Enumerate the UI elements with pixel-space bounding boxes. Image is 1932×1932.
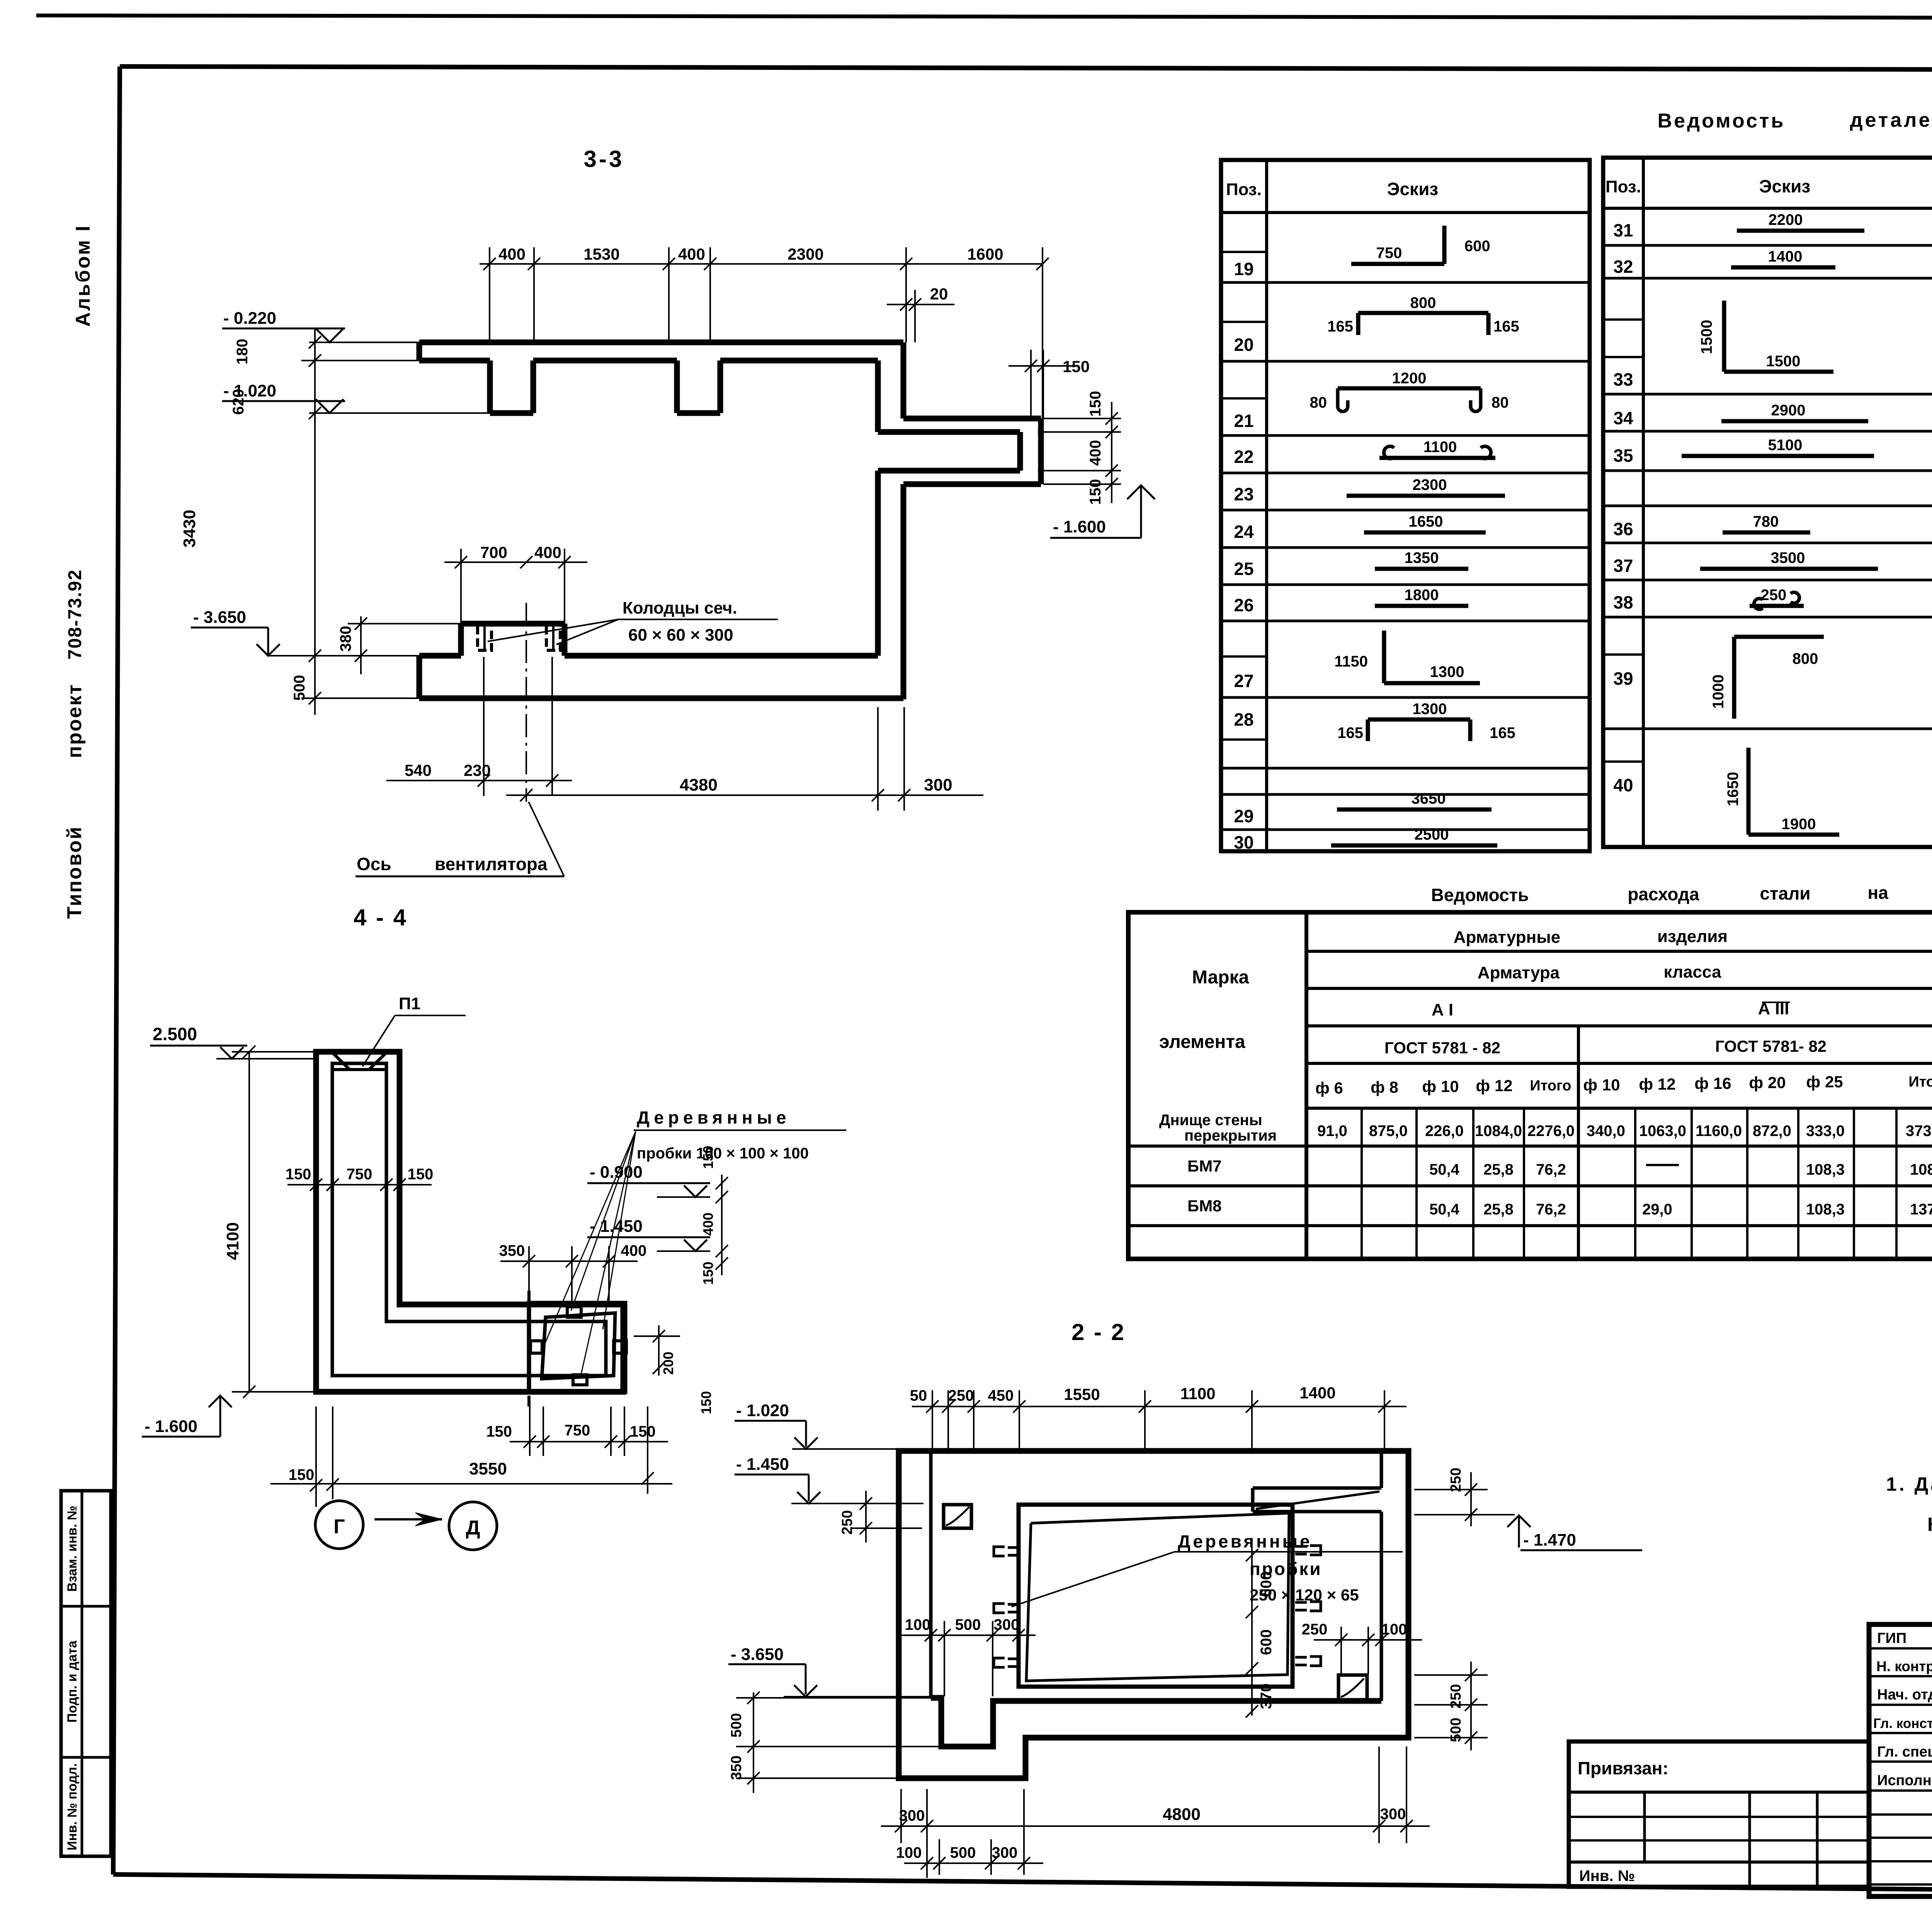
- svg-text:ф 12: ф 12: [1639, 1075, 1675, 1093]
- svg-text:100: 100: [905, 1616, 931, 1633]
- svg-text:300: 300: [899, 1807, 925, 1824]
- table2 item 39 sketch corner 800/1000: [1734, 635, 1824, 639]
- svg-text:- 1.020: - 1.020: [736, 1401, 789, 1420]
- svg-text:Эскиз: Эскиз: [1387, 179, 1438, 199]
- table2 item 36 sketch bar 780: [1723, 531, 1810, 535]
- svg-text:250: 250: [1448, 1468, 1464, 1492]
- svg-text:333,0: 333,0: [1806, 1122, 1845, 1139]
- section 3-3 beam notch 1: [487, 361, 493, 413]
- svg-text:БМ8: БМ8: [1187, 1197, 1222, 1215]
- svg-text:400: 400: [700, 1213, 716, 1236]
- svg-text:элемента: элемента: [1159, 1032, 1245, 1052]
- svg-text:150: 150: [630, 1423, 656, 1440]
- svg-text:3430: 3430: [180, 510, 199, 548]
- svg-text:- 1.450: - 1.450: [736, 1455, 789, 1474]
- svg-text:1200: 1200: [1392, 370, 1427, 387]
- svg-text:750: 750: [347, 1166, 372, 1183]
- svg-text:150: 150: [698, 1391, 714, 1414]
- section 4-4 plug leader lines: [544, 1131, 636, 1345]
- svg-text:- 1.450: - 1.450: [590, 1217, 643, 1236]
- svg-text:Поз.: Поз.: [1605, 177, 1641, 196]
- section 2-2 shaft inner quad: [1026, 1513, 1289, 1681]
- table1 item 30 sketch bar 2500: [1331, 844, 1497, 848]
- privyazan table rows: [1569, 1791, 1869, 1794]
- section 2-2 right dim 250 top: [1414, 1489, 1488, 1490]
- svg-text:Арматурные: Арматурные: [1454, 928, 1561, 947]
- table2 item 35 sketch bar 5100: [1682, 454, 1874, 458]
- svg-text:расхода: расхода: [1628, 884, 1699, 904]
- svg-text:4100: 4100: [223, 1222, 242, 1260]
- svg-text:1400: 1400: [1299, 1384, 1335, 1402]
- svg-text:38: 38: [1613, 592, 1633, 612]
- svg-text:1550: 1550: [1064, 1385, 1100, 1403]
- svg-text:пробки 100 × 100 × 100: пробки 100 × 100 × 100: [637, 1145, 809, 1162]
- svg-text:Арматура: Арматура: [1478, 963, 1560, 982]
- section 4-4 inner contour: [332, 1063, 606, 1376]
- section 3-3 dim 4380 300: [506, 794, 983, 796]
- svg-text:2300: 2300: [1413, 476, 1447, 493]
- section 4-4 insert box outer: [529, 1303, 625, 1392]
- svg-text:108,3: 108,3: [1806, 1201, 1845, 1218]
- svg-text:ГИП: ГИП: [1877, 1630, 1906, 1646]
- svg-text:108,3: 108,3: [1910, 1161, 1932, 1178]
- section 2-2 inner right wall line: [1380, 1451, 1383, 1488]
- svg-text:100: 100: [1381, 1621, 1407, 1638]
- svg-text:620: 620: [230, 389, 247, 415]
- section 4-4 bottom dims 150 3550: [270, 1483, 672, 1485]
- steel table header horizontal lines: [1306, 950, 1932, 953]
- svg-text:872,0: 872,0: [1753, 1122, 1791, 1139]
- svg-text:перекрытия: перекрытия: [1184, 1127, 1277, 1144]
- section 2-2 right bottom dims 250 500: [1414, 1674, 1488, 1676]
- table1 item 20 sketch staple 800/165: [1358, 311, 1488, 315]
- svg-text:1063,0: 1063,0: [1639, 1122, 1686, 1139]
- svg-text:250: 250: [1302, 1621, 1328, 1638]
- title block outer frame: [1869, 1624, 1932, 1896]
- svg-text:- 0.900: - 0.900: [590, 1163, 643, 1182]
- svg-text:800: 800: [1410, 294, 1436, 311]
- svg-text:1650: 1650: [1409, 513, 1443, 530]
- svg-text:- 3.650: - 3.650: [731, 1645, 784, 1664]
- svg-text:Марка: Марка: [1192, 967, 1249, 988]
- svg-text:19: 19: [1234, 259, 1253, 279]
- svg-text:40: 40: [1613, 775, 1633, 795]
- svg-text:230: 230: [464, 761, 491, 779]
- svg-text:400: 400: [498, 245, 526, 263]
- section 4-4 dim 4100 left: [248, 1052, 250, 1392]
- svg-text:91,0: 91,0: [1317, 1122, 1347, 1139]
- svg-text:875,0: 875,0: [1369, 1122, 1408, 1139]
- section 4-4 top plate P1: [333, 1068, 386, 1071]
- svg-text:780: 780: [1753, 513, 1779, 530]
- svg-text:3-3: 3-3: [584, 146, 624, 172]
- title block signature row lines: [1869, 1647, 1932, 1650]
- svg-text:ф 8: ф 8: [1371, 1078, 1398, 1096]
- section 3-3 right vertical dims 150 400 150: [1111, 402, 1112, 503]
- svg-text:- 0.220: - 0.220: [223, 309, 276, 328]
- svg-text:150: 150: [1063, 357, 1090, 376]
- svg-text:Н. контр.: Н. контр.: [1876, 1658, 1932, 1674]
- section 3-3 fan axis line: [526, 603, 527, 802]
- section 3-3 slab left end edge: [417, 342, 422, 361]
- svg-text:600: 600: [1464, 238, 1490, 255]
- svg-text:БМ7: БМ7: [1187, 1157, 1222, 1175]
- svg-text:50: 50: [910, 1387, 927, 1404]
- svg-text:1150: 1150: [1334, 653, 1368, 670]
- section 4-4 dashed section axis: [527, 1291, 531, 1406]
- svg-text:29,0: 29,0: [1642, 1201, 1672, 1218]
- svg-text:400: 400: [1087, 440, 1104, 466]
- svg-text:Итого: Итого: [1530, 1078, 1571, 1094]
- section 3-3 well 1: [478, 626, 492, 650]
- detail table 1 frame: [1221, 160, 1590, 851]
- svg-text:27: 27: [1234, 671, 1253, 691]
- svg-text:5100: 5100: [1768, 437, 1803, 454]
- section 4-4 insert tab bottom: [573, 1375, 587, 1385]
- svg-text:22: 22: [1234, 447, 1253, 467]
- table1 item 23 sketch bar 2300: [1347, 494, 1505, 498]
- svg-text:340,0: 340,0: [1587, 1122, 1625, 1139]
- main frame bottom edge: [113, 1874, 1932, 1896]
- svg-text:165: 165: [1327, 318, 1353, 335]
- detail table 1 header row: [1221, 211, 1590, 214]
- section 4-4 bottom dims 150 750 150: [510, 1441, 668, 1442]
- section 4-4 axis bubble D: [449, 1502, 497, 1550]
- section 4-4 insert tab left: [531, 1341, 542, 1353]
- svg-text:4380: 4380: [680, 776, 718, 794]
- svg-text:26: 26: [1234, 595, 1253, 615]
- svg-text:Гл. спец .: Гл. спец .: [1877, 1744, 1932, 1760]
- svg-text:Итого: Итого: [1908, 1074, 1932, 1090]
- svg-text:21: 21: [1234, 411, 1253, 431]
- svg-text:3650: 3650: [1412, 790, 1446, 807]
- svg-text:ГОСТ 5781 - 82: ГОСТ 5781 - 82: [1384, 1039, 1500, 1057]
- section 2-2 lower right opening square: [1338, 1675, 1367, 1700]
- section 2-2 floor and sump: [931, 1698, 1381, 1747]
- svg-text:300: 300: [1380, 1806, 1406, 1823]
- svg-text:76,2: 76,2: [1536, 1161, 1566, 1178]
- table2 item 37 sketch bar 3500: [1700, 567, 1878, 571]
- svg-text:Подп. и дата: Подп. и дата: [65, 1640, 80, 1723]
- svg-text:1600: 1600: [967, 245, 1003, 263]
- section 2-2 dims 100 500 300 inside: [896, 1634, 1036, 1636]
- section 2-2 upper left opening square: [944, 1505, 971, 1528]
- svg-text:проект: проект: [63, 684, 86, 758]
- svg-text:Эскиз: Эскиз: [1759, 176, 1810, 196]
- section 3-3 dim 150 top right: [1009, 365, 1078, 367]
- svg-text:1. Данный лист смотреть со: 1. Данный лист смотреть совместно с лист…: [1886, 1473, 1932, 1495]
- section 3-3 dim 20: [887, 304, 954, 305]
- table2 item 34 sketch bar 2900: [1721, 419, 1868, 423]
- svg-text:3500: 3500: [1771, 549, 1805, 566]
- svg-text:25,8: 25,8: [1483, 1161, 1514, 1178]
- svg-text:80: 80: [1310, 394, 1327, 411]
- svg-text:3550: 3550: [469, 1459, 507, 1478]
- table1 item 25 sketch bar 1350: [1375, 567, 1468, 571]
- section 3-3 floor and bottom slab: [419, 653, 461, 659]
- svg-text:370: 370: [1258, 1684, 1275, 1709]
- svg-text:Днище стены: Днище стены: [1159, 1112, 1262, 1129]
- svg-text:2276,0: 2276,0: [1527, 1122, 1575, 1139]
- svg-text:2200: 2200: [1769, 211, 1803, 228]
- svg-text:450: 450: [988, 1387, 1014, 1404]
- svg-text:- 1.600: - 1.600: [1053, 517, 1106, 536]
- svg-text:ф 10: ф 10: [1422, 1077, 1459, 1095]
- section 3-3 well 2: [546, 626, 560, 650]
- svg-text:800: 800: [1793, 650, 1818, 667]
- svg-text:500: 500: [728, 1713, 745, 1737]
- svg-text:250: 250: [948, 1387, 974, 1404]
- svg-text:1000: 1000: [1710, 675, 1727, 709]
- svg-text:540: 540: [405, 761, 432, 779]
- svg-text:350: 350: [728, 1755, 745, 1780]
- svg-text:600: 600: [1258, 1629, 1275, 1655]
- table1 item 29 sketch bar 3650: [1337, 808, 1492, 812]
- section 4-4 insert tab top: [567, 1307, 581, 1317]
- svg-text:34: 34: [1613, 408, 1633, 428]
- section 4-4 insert tab right: [614, 1341, 626, 1353]
- svg-text:165: 165: [1490, 724, 1515, 742]
- svg-text:А I: А I: [1432, 1000, 1453, 1019]
- svg-text:1500: 1500: [1766, 353, 1801, 370]
- section 4-4 dims 150 750 150 top: [287, 1184, 432, 1185]
- svg-text:23: 23: [1234, 484, 1253, 504]
- svg-text:36: 36: [1613, 519, 1633, 539]
- svg-text:ГОСТ 5781- 82: ГОСТ 5781- 82: [1715, 1037, 1827, 1055]
- svg-text:150: 150: [286, 1166, 311, 1183]
- section 3-3 dim 540 230: [386, 780, 572, 781]
- section 2-2 plug leader line: [1012, 1552, 1175, 1607]
- svg-text:1650: 1650: [1725, 772, 1742, 806]
- svg-text:на: на: [1867, 883, 1888, 903]
- svg-text:2 - 2: 2 - 2: [1071, 1319, 1126, 1345]
- table1 item 27 sketch L-bar 1150x1300: [1382, 631, 1386, 683]
- svg-text:30: 30: [1234, 832, 1253, 852]
- table1 item 24 sketch bar 1650: [1364, 531, 1486, 535]
- svg-text:1530: 1530: [583, 245, 619, 263]
- svg-text:50,4: 50,4: [1429, 1161, 1460, 1178]
- svg-text:300: 300: [992, 1844, 1018, 1861]
- svg-text:39: 39: [1613, 668, 1633, 689]
- svg-text:400: 400: [621, 1242, 647, 1259]
- svg-text:Г: Г: [333, 1515, 345, 1538]
- svg-text:250: 250: [839, 1510, 855, 1534]
- svg-text:2500: 2500: [1415, 826, 1449, 843]
- svg-text:226,0: 226,0: [1425, 1122, 1464, 1139]
- svg-text:1800: 1800: [1405, 587, 1439, 604]
- svg-text:Взам. инв. №: Взам. инв. №: [65, 1505, 80, 1592]
- section 3-3 top slab outline: [419, 340, 903, 345]
- section 2-2 dims 250 100 lower right: [1314, 1639, 1422, 1641]
- svg-text:2.500: 2.500: [153, 1024, 197, 1044]
- svg-text:250: 250: [1448, 1684, 1464, 1708]
- svg-text:- 1.600: - 1.600: [145, 1417, 197, 1436]
- section 2-2 inner left wall line: [929, 1451, 933, 1698]
- svg-text:- 1.470: - 1.470: [1523, 1531, 1576, 1549]
- svg-text:1100: 1100: [1423, 439, 1457, 456]
- section 2-2 left bottom dims 500 350: [753, 1692, 754, 1793]
- table2 item 38 sketch z-hook 250: [1750, 604, 1804, 608]
- svg-text:600: 600: [1258, 1571, 1275, 1597]
- svg-text:150: 150: [1087, 391, 1104, 417]
- main frame top edge: [120, 66, 1932, 71]
- svg-text:400: 400: [678, 245, 705, 263]
- svg-text:350: 350: [499, 1242, 525, 1259]
- svg-text:Привязан:: Привязан:: [1578, 1758, 1668, 1778]
- svg-text:20: 20: [1234, 335, 1253, 355]
- table2 item 31 sketch bar 2200: [1737, 229, 1864, 233]
- table2 item 33 sketch L-bar 1500x1500: [1722, 301, 1726, 372]
- section 2-2 bottom dims 100 500 300: [904, 1862, 1043, 1864]
- section 4-4 insert inner quad: [542, 1313, 615, 1379]
- svg-text:150: 150: [408, 1166, 434, 1183]
- outer top band line: [36, 15, 1932, 19]
- svg-text:37: 37: [1613, 556, 1633, 576]
- svg-text:35: 35: [1613, 446, 1633, 466]
- svg-text:750: 750: [565, 1422, 590, 1439]
- svg-text:ф 20: ф 20: [1749, 1073, 1786, 1092]
- svg-text:Гл. констр.: Гл. констр.: [1873, 1716, 1932, 1731]
- svg-text:Д: Д: [466, 1517, 480, 1539]
- svg-text:стали: стали: [1760, 883, 1810, 903]
- section 3-3 plinth: [458, 624, 464, 656]
- detail table 2 frame: [1603, 158, 1932, 847]
- svg-text:500: 500: [1448, 1718, 1464, 1742]
- svg-text:Деревянные: Деревянные: [1178, 1531, 1312, 1551]
- svg-text:Исполн.: Исполн.: [1877, 1772, 1932, 1789]
- svg-text:200: 200: [660, 1352, 676, 1375]
- svg-text:32: 32: [1613, 257, 1633, 277]
- steel table outer frame: [1128, 912, 1932, 1259]
- section 2-2 top dimension row 50 250 450 1550 1100 1400: [912, 1406, 1406, 1407]
- main frame left edge: [113, 66, 120, 1874]
- section 3-3 dim 700 400 above plinth: [444, 561, 587, 563]
- svg-text:165: 165: [1337, 724, 1363, 742]
- svg-text:Ведомость: Ведомость: [1658, 110, 1786, 132]
- svg-text:1084,0: 1084,0: [1475, 1122, 1522, 1139]
- svg-text:1350: 1350: [1405, 549, 1439, 566]
- svg-text:25: 25: [1234, 559, 1253, 579]
- svg-text:150: 150: [700, 1146, 716, 1169]
- svg-text:изделия: изделия: [1657, 927, 1728, 946]
- svg-text:29: 29: [1234, 806, 1253, 826]
- section 2-2 left dim 250: [865, 1491, 867, 1543]
- svg-text:Ось: Ось: [357, 854, 391, 874]
- section 4-4 dim 200: [658, 1325, 660, 1376]
- svg-text:1900: 1900: [1782, 816, 1816, 833]
- svg-text:180: 180: [234, 339, 251, 365]
- section 3-3 top dimension row 400 1530 400 2300 1600: [480, 263, 1043, 265]
- section 2-2 bottom dims 300 4800 300: [881, 1825, 1430, 1827]
- svg-text:Деревянные: Деревянные: [637, 1107, 791, 1128]
- svg-text:1500: 1500: [1698, 320, 1715, 354]
- section 2-2 central shaft rectangle: [1019, 1505, 1293, 1687]
- table1 item 26 sketch bar 1800: [1375, 604, 1468, 608]
- privyazan table columns: [1643, 1792, 1646, 1862]
- svg-text:380: 380: [337, 626, 354, 652]
- table2 item 32 sketch bar 1400: [1731, 265, 1835, 270]
- svg-text:3738,0: 3738,0: [1906, 1122, 1932, 1139]
- svg-text:1160,0: 1160,0: [1696, 1122, 1742, 1139]
- section 4-4 dims 350 400 above box: [500, 1260, 638, 1262]
- svg-text:300: 300: [994, 1616, 1020, 1633]
- section 4-4 outer contour: [316, 1052, 623, 1392]
- svg-text:класса: класса: [1664, 963, 1721, 981]
- svg-text:ф 6: ф 6: [1315, 1079, 1343, 1097]
- svg-text:80: 80: [1492, 394, 1509, 411]
- svg-text:24: 24: [1234, 522, 1254, 542]
- detail table 1 row lines: [1221, 281, 1590, 284]
- section 4-4 right vertical dims 150 400 150 200: [721, 1175, 723, 1275]
- section 4-4 axis bubble G: [315, 1501, 363, 1549]
- detail table 2 header row: [1603, 207, 1932, 210]
- svg-text:1400: 1400: [1768, 248, 1803, 265]
- svg-text:20: 20: [930, 285, 948, 303]
- svg-text:ф 10: ф 10: [1583, 1076, 1620, 1094]
- svg-text:50,4: 50,4: [1429, 1201, 1460, 1218]
- detail table 2 row lines: [1603, 244, 1932, 247]
- table2 item 40 sketch L-bar 1650x1900: [1747, 748, 1751, 835]
- svg-text:4800: 4800: [1163, 1805, 1201, 1824]
- svg-text:76,2: 76,2: [1536, 1201, 1566, 1218]
- svg-text:вентилятора: вентилятора: [435, 854, 548, 874]
- table1 item 19 sketch L-bar 750x600: [1351, 262, 1444, 266]
- svg-text:Ведомость: Ведомость: [1431, 885, 1529, 905]
- section 2-2 right vertical dims 600 600 370: [1251, 1548, 1253, 1716]
- svg-text:150: 150: [1087, 479, 1104, 505]
- section 4-4 axis arrow: [374, 1518, 442, 1520]
- svg-text:28: 28: [1234, 709, 1253, 730]
- svg-text:Инв. № подл.: Инв. № подл.: [65, 1763, 80, 1850]
- section 3-3 duct channel: [903, 416, 1041, 422]
- svg-text:300: 300: [924, 776, 952, 794]
- privyazan table frame: [1569, 1742, 1869, 1887]
- svg-text:108,3: 108,3: [1806, 1161, 1845, 1178]
- svg-text:708-73.92: 708-73.92: [65, 569, 85, 660]
- section 3-3 beam notch 2: [674, 361, 680, 413]
- svg-text:ф 16: ф 16: [1694, 1074, 1731, 1092]
- svg-text:КЖ-31; КЖ-33÷КЖ-36.: КЖ-31; КЖ-33÷КЖ-36.: [1927, 1514, 1932, 1535]
- svg-text:Инв. №: Инв. №: [1579, 1867, 1635, 1884]
- svg-text:ф 25: ф 25: [1806, 1073, 1843, 1091]
- table1 item 22 sketch bar with hooks 1100: [1379, 456, 1495, 460]
- svg-text:500: 500: [955, 1616, 981, 1633]
- svg-text:1300: 1300: [1430, 663, 1464, 680]
- svg-text:500: 500: [950, 1844, 976, 1861]
- svg-text:- 3.650: - 3.650: [193, 608, 246, 627]
- steel table marka column divider: [1304, 912, 1308, 1259]
- svg-text:деталей: деталей: [1850, 109, 1932, 131]
- svg-text:Альбом I: Альбом I: [72, 224, 94, 327]
- svg-text:750: 750: [1376, 245, 1402, 262]
- svg-text:165: 165: [1493, 318, 1519, 335]
- svg-text:ф 12: ф 12: [1476, 1077, 1512, 1095]
- section 2-2 elevation -1.470: [1518, 1515, 1520, 1548]
- svg-text:4 - 4: 4 - 4: [354, 905, 408, 930]
- svg-text:Нач. отд.: Нач. отд.: [1877, 1687, 1932, 1703]
- section 2-2 top right slot: [1253, 1486, 1381, 1490]
- svg-text:500: 500: [291, 675, 308, 701]
- svg-text:Поз.: Поз.: [1226, 180, 1262, 199]
- svg-text:Типовой: Типовой: [63, 826, 86, 919]
- steel table data row lines: [1128, 1145, 1932, 1148]
- section 3-3 right wall: [901, 342, 906, 418]
- section 2-2 outer contour: [899, 1451, 1408, 1778]
- steel table vertical column lines: [1577, 1026, 1580, 1259]
- table1 item 21 sketch staple with hooks 1200/80: [1338, 386, 1481, 391]
- svg-text:П1: П1: [399, 994, 420, 1013]
- section 2-2 shaft left tabs: [994, 1547, 1005, 1556]
